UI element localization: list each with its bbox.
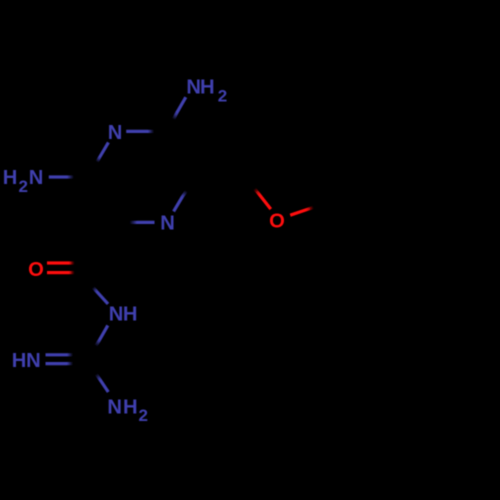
svg-text:2: 2 <box>138 406 147 425</box>
svg-text:N: N <box>160 213 175 235</box>
svg-text:H: H <box>12 350 27 372</box>
svg-text:2: 2 <box>18 177 27 196</box>
svg-text:2: 2 <box>218 87 227 106</box>
svg-text:O: O <box>269 211 285 233</box>
svg-text:N: N <box>186 77 201 99</box>
svg-text:H: H <box>123 397 138 419</box>
svg-text:O: O <box>28 259 44 281</box>
svg-text:H: H <box>200 77 215 99</box>
svg-text:H: H <box>123 304 138 326</box>
svg-text:N: N <box>108 122 123 144</box>
svg-text:N: N <box>109 304 124 326</box>
svg-text:N: N <box>26 350 41 372</box>
svg-text:H: H <box>3 167 18 189</box>
svg-text:N: N <box>107 397 122 419</box>
svg-text:N: N <box>29 167 44 189</box>
